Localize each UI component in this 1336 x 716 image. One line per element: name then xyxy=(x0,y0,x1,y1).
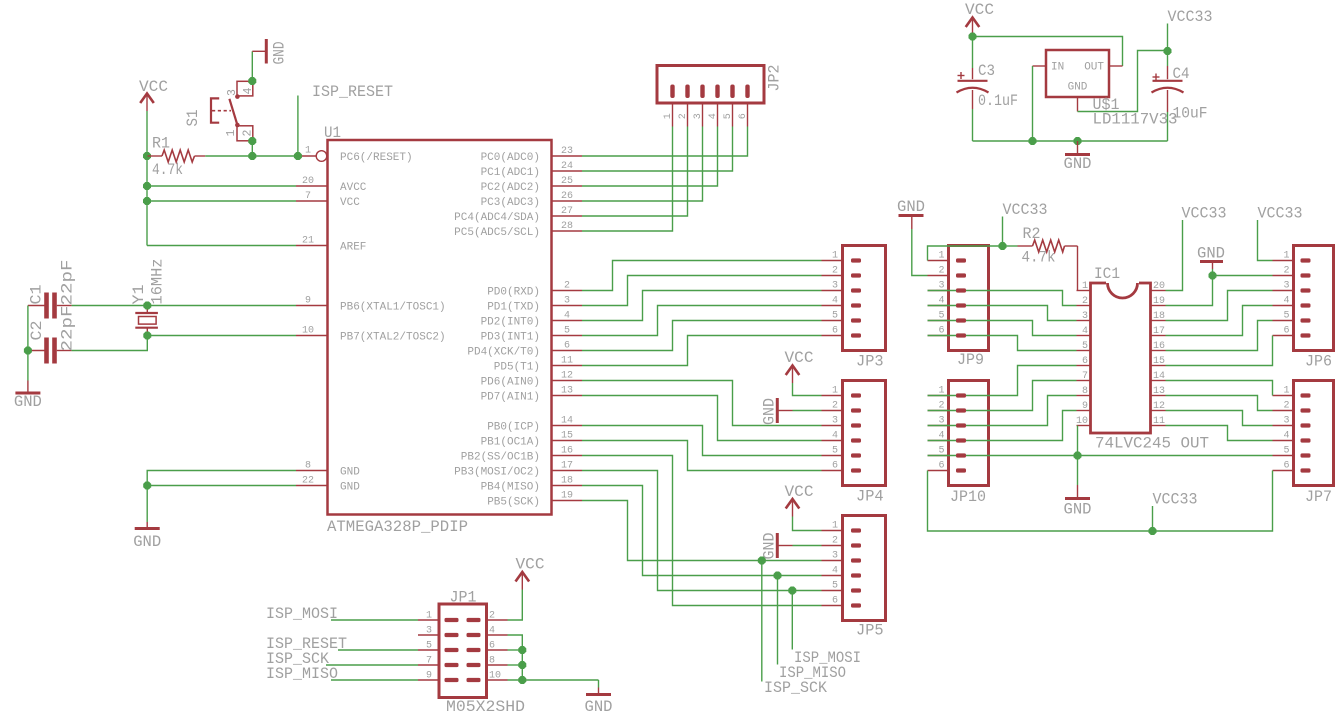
svg-text:PC1(ADC1): PC1(ADC1) xyxy=(481,167,540,179)
power symbol VCC (JP4) xyxy=(785,349,814,386)
net label VCC33 (IC1 pin20) xyxy=(1182,205,1227,223)
svg-text:15: 15 xyxy=(561,431,573,442)
JP1 pin 2 stub xyxy=(487,611,508,622)
svg-text:PD3(INT1): PD3(INT1) xyxy=(481,332,540,344)
svg-text:VCC: VCC xyxy=(965,1,994,19)
svg-text:ISP_MOSI: ISP_MOSI xyxy=(266,605,338,623)
IC1 pin 1 stub xyxy=(1077,281,1091,292)
svg-text:14: 14 xyxy=(1153,371,1165,382)
wire XTAL2 net xyxy=(147,335,296,337)
JP6 pin 2 stub xyxy=(1273,266,1294,277)
JP2 pin 2 stub and number xyxy=(678,103,689,127)
U1 pin 24 PC1(ADC1) xyxy=(481,161,582,179)
wire RESET net (R1 to U1 pin1) xyxy=(205,155,298,157)
svg-text:JP7: JP7 xyxy=(1305,488,1332,506)
wire PD4 net (U1 to JP3 pin 5) xyxy=(582,321,822,351)
svg-text:PC3(ADC3): PC3(ADC3) xyxy=(481,197,540,209)
U1 pin 9 PB6(XTAL1/TOSC1) xyxy=(296,296,446,314)
capacitor C2 22pF xyxy=(28,306,77,364)
svg-text:5: 5 xyxy=(832,311,838,322)
svg-text:VCC: VCC xyxy=(785,483,814,501)
svg-text:GND: GND xyxy=(1064,501,1092,519)
svg-text:17: 17 xyxy=(561,461,573,472)
JP1 pin 1 stub xyxy=(418,611,439,622)
svg-text:VCC33: VCC33 xyxy=(1258,205,1303,223)
IC1 pin 8 stub xyxy=(1077,386,1091,397)
wire PB1 net (U1 to JP4 pin 6) xyxy=(582,441,822,471)
node junction VCC/C3 xyxy=(969,33,977,41)
svg-text:ISP_RESET: ISP_RESET xyxy=(312,83,393,101)
wire XTAL1 net xyxy=(72,305,296,307)
svg-text:3: 3 xyxy=(832,281,838,292)
node junction rail/IN xyxy=(1029,137,1037,145)
svg-text:PD6(AIN0): PD6(AIN0) xyxy=(481,377,540,389)
JP9 pin 2 stub xyxy=(928,266,949,277)
JP3 pin 3 stub xyxy=(822,281,843,292)
wire ISP_MISO to JP1 pin9 xyxy=(331,679,418,681)
U1 pin 4 PD2(INT0) xyxy=(481,311,582,329)
connector JP2 body xyxy=(657,65,784,104)
svg-text:GND: GND xyxy=(761,398,779,425)
svg-text:PD7(AIN1): PD7(AIN1) xyxy=(481,392,540,404)
svg-text:1: 1 xyxy=(938,251,944,262)
net label ISP_MOSI (bottom) xyxy=(794,649,861,667)
JP10 pin 6 stub xyxy=(928,461,949,472)
svg-text:4.7k: 4.7k xyxy=(152,161,183,179)
wire AVCC net xyxy=(147,185,296,187)
IC1 pin 2 stub xyxy=(1077,296,1091,307)
svg-text:PC4(ADC4/SDA): PC4(ADC4/SDA) xyxy=(454,212,540,224)
JP5 pin 2 stub xyxy=(822,536,843,547)
svg-text:4: 4 xyxy=(1283,296,1289,307)
svg-text:GND: GND xyxy=(133,533,161,551)
svg-text:5: 5 xyxy=(723,113,734,119)
svg-text:GND: GND xyxy=(1197,245,1225,263)
JP1 pin 3 stub xyxy=(418,626,439,637)
connector JP5 body xyxy=(843,516,886,640)
IC1 pin 13 stub xyxy=(1151,386,1166,397)
wire PC4 net (U1 pin 27 to JP2 pin 2) xyxy=(582,127,688,217)
svg-text:1: 1 xyxy=(1082,281,1088,292)
U1 pin 21 AREF xyxy=(296,236,366,254)
IC1 pin 20 stub xyxy=(1151,281,1166,292)
wire JP9 pin 6 to IC1 pin 5 xyxy=(928,336,1077,351)
svg-text:20: 20 xyxy=(1153,281,1165,292)
svg-text:GND: GND xyxy=(1068,82,1088,94)
JP3 pin 4 stub xyxy=(822,296,843,307)
svg-text:GND: GND xyxy=(340,467,360,479)
svg-text:GND: GND xyxy=(1064,155,1092,173)
svg-text:2: 2 xyxy=(832,536,838,547)
svg-text:5: 5 xyxy=(1283,446,1289,457)
U1 pin 15 PB1(OC1A) xyxy=(481,431,582,449)
U1 pin 11 PD5(T1) xyxy=(494,356,582,374)
wire R2 to IC1 pin1 xyxy=(1077,246,1079,291)
power symbol VCC (regulator) xyxy=(965,1,994,38)
JP9 pin 4 stub xyxy=(928,296,949,307)
node junction XTAL2 xyxy=(143,332,151,340)
svg-text:ISP_MOSI: ISP_MOSI xyxy=(794,649,861,667)
svg-text:9: 9 xyxy=(1082,401,1088,412)
switch S1 pin box 1/2 xyxy=(225,126,255,141)
JP4 pin 2 stub xyxy=(822,401,843,412)
capacitor C3 0.1uF (polarized) xyxy=(957,37,1019,111)
svg-text:21: 21 xyxy=(302,236,314,247)
wire VCC to JP4 pin1 xyxy=(793,386,822,396)
svg-text:PB0(ICP): PB0(ICP) xyxy=(487,422,540,434)
power symbol VCC (left rail) xyxy=(139,78,168,114)
U1 pin 26 PC3(ADC3) xyxy=(481,191,582,209)
wire regulator ground rail xyxy=(973,140,1168,142)
ground symbol GND (U1 left) xyxy=(133,522,161,551)
wire IC1 pin19 to GND and JP6 pin2 xyxy=(1166,269,1273,306)
svg-text:74LVC245 OUT: 74LVC245 OUT xyxy=(1095,435,1209,453)
U1 pin 1 PC6(/RESET) with inversion bubble xyxy=(298,146,413,165)
svg-text:22: 22 xyxy=(302,476,314,487)
svg-text:6: 6 xyxy=(738,113,749,119)
JP9 pin 6 stub xyxy=(928,326,949,337)
svg-text:4.7k: 4.7k xyxy=(1022,249,1056,267)
svg-text:JP1: JP1 xyxy=(450,589,477,607)
svg-text:1: 1 xyxy=(832,251,838,262)
JP5 pin 3 stub xyxy=(822,551,843,562)
resistor R1 4.7k xyxy=(148,135,206,180)
wire ISP_MISO vertical xyxy=(777,576,779,665)
wire GND to JP4 pin2 xyxy=(793,410,822,412)
wire JP9 pin 5 to IC1 pin 4 xyxy=(928,321,1077,336)
svg-text:18: 18 xyxy=(561,476,573,487)
wire ISP_SCK to JP1 pin7 xyxy=(326,664,418,666)
wire PD7 net (U1 to JP4 pin 4) xyxy=(582,396,822,441)
svg-text:8: 8 xyxy=(305,461,311,472)
svg-text:4: 4 xyxy=(708,113,719,119)
svg-text:4: 4 xyxy=(1283,431,1289,442)
svg-text:4: 4 xyxy=(832,296,838,307)
JP4 pin 5 stub xyxy=(822,446,843,457)
wire C3 to ground rail xyxy=(972,109,974,141)
wire IC1 pin 12 to JP7 pin 3 xyxy=(1166,411,1273,426)
switch S1 pin box 3/4 xyxy=(226,81,255,96)
svg-text:26: 26 xyxy=(561,191,573,202)
wire AREF net xyxy=(147,245,296,247)
svg-text:11: 11 xyxy=(1153,416,1165,427)
svg-text:JP2: JP2 xyxy=(766,65,784,92)
U1 pin 7 VCC xyxy=(296,191,360,209)
svg-text:13: 13 xyxy=(1153,386,1165,397)
net label ISP_MISO (JP1) xyxy=(266,665,338,683)
wire GND to JP5 pin2 xyxy=(793,545,822,547)
node junction ISP_MISO xyxy=(774,572,782,580)
node junction S1 bottom xyxy=(248,137,256,145)
wire ISP_MOSI vertical xyxy=(791,591,793,650)
svg-text:R2: R2 xyxy=(1023,225,1041,243)
wire PD6 net (U1 to JP4 pin 3) xyxy=(582,381,822,426)
svg-text:PB4(MISO): PB4(MISO) xyxy=(481,482,540,494)
wire GND pin22 net xyxy=(147,485,296,487)
svg-text:8: 8 xyxy=(489,656,495,667)
switch S1 label xyxy=(184,110,202,127)
U1 pin 16 PB2(SS/OC1B) xyxy=(461,446,582,464)
JP6 pin 5 stub xyxy=(1273,311,1294,322)
node junction GND pin22 xyxy=(143,482,151,490)
power symbol VCC (JP1) xyxy=(516,556,545,593)
U1 pin 19 PB5(SCK) xyxy=(487,491,582,509)
svg-text:IC1: IC1 xyxy=(1094,265,1120,283)
U1 pin 27 PC4(ADC4/SDA) xyxy=(454,206,582,224)
net label ISP_RESET (top) xyxy=(312,83,393,101)
connector JP7 body xyxy=(1294,381,1334,507)
wire PB3 net (U1 to JP5 pin 5) xyxy=(582,471,822,591)
wire IC1 pin 17 to JP6 pin 4 xyxy=(1166,306,1273,336)
IC IC1 74LVC245 body xyxy=(1091,265,1210,453)
wire IC1 pin 16 to JP6 pin 5 xyxy=(1166,321,1273,351)
svg-text:4: 4 xyxy=(832,566,838,577)
wire PB2 net (U1 to JP5 pin 6) xyxy=(582,456,822,606)
JP1 pin 4 stub xyxy=(487,626,508,637)
wire PB4 net (U1 to JP5 pin 4) xyxy=(582,486,822,576)
U1 pin 18 PB4(MISO) xyxy=(481,476,582,494)
svg-text:VCC: VCC xyxy=(139,78,168,96)
IC1 pin 15 stub xyxy=(1151,356,1166,367)
net label ISP_SCK (JP1) xyxy=(266,650,329,668)
ground symbol GND (JP4, rotated) xyxy=(761,398,793,425)
svg-text:C2: C2 xyxy=(28,321,46,341)
svg-text:1: 1 xyxy=(1283,386,1289,397)
U1 pin 17 PB3(MOSI/OC2) xyxy=(454,461,582,479)
svg-text:6: 6 xyxy=(1283,461,1289,472)
JP10 pin 5 stub xyxy=(928,446,949,457)
svg-text:15: 15 xyxy=(1153,356,1165,367)
svg-text:PC5(ADC5/SCL): PC5(ADC5/SCL) xyxy=(454,227,540,239)
U$1 GND pin stub xyxy=(1077,97,1079,112)
svg-text:6: 6 xyxy=(832,596,838,607)
svg-text:5: 5 xyxy=(1082,341,1088,352)
node junction ISP_RESET/pin1 xyxy=(294,152,302,160)
svg-text:PB6(XTAL1/TOSC1): PB6(XTAL1/TOSC1) xyxy=(340,302,446,314)
JP7 pin 1 stub xyxy=(1273,386,1294,397)
JP4 pin 3 stub xyxy=(822,416,843,427)
svg-text:JP9: JP9 xyxy=(957,351,984,369)
IC U1 ATMEGA328P_PDIP body xyxy=(324,124,552,536)
svg-text:JP5: JP5 xyxy=(856,622,884,640)
svg-text:PB2(SS/OC1B): PB2(SS/OC1B) xyxy=(461,452,540,464)
svg-text:10: 10 xyxy=(1076,416,1088,427)
JP1 pin 6 stub xyxy=(487,641,508,652)
svg-text:12: 12 xyxy=(1153,401,1165,412)
svg-text:R1: R1 xyxy=(152,135,170,153)
wire PC2 net (U1 pin 25 to JP2 pin 4) xyxy=(582,127,718,187)
svg-text:6: 6 xyxy=(1082,356,1088,367)
connector JP1 body (M05X2SHD) xyxy=(439,589,525,716)
connector JP10 body xyxy=(949,381,989,507)
svg-text:2: 2 xyxy=(489,611,495,622)
svg-text:18: 18 xyxy=(1153,311,1165,322)
IC1 pin 3 stub xyxy=(1077,311,1091,322)
svg-text:7: 7 xyxy=(305,191,311,202)
svg-text:PD2(INT0): PD2(INT0) xyxy=(481,317,540,329)
node junction C2 left xyxy=(24,347,32,355)
wire VCC to JP5 pin1 xyxy=(793,519,822,531)
svg-text:GND: GND xyxy=(340,482,360,494)
net label ISP_MISO (bottom) xyxy=(779,664,846,682)
svg-text:U1: U1 xyxy=(324,124,341,142)
JP9 pin pads xyxy=(956,258,966,337)
wire PD5 net (U1 to JP3 pin 6) xyxy=(582,336,822,366)
wire IN pin to ground rail xyxy=(1032,66,1034,141)
svg-text:2: 2 xyxy=(938,266,944,277)
wire VCC33 bottom vertical xyxy=(1152,506,1154,531)
wire C2 to XTAL2 xyxy=(72,336,148,351)
svg-text:IN: IN xyxy=(1051,62,1064,74)
svg-text:10uF: 10uF xyxy=(1173,105,1208,123)
svg-text:4: 4 xyxy=(564,311,570,322)
svg-text:Y1: Y1 xyxy=(130,285,148,305)
wire JP9 pin 4 to IC1 pin 3 xyxy=(928,306,1077,321)
wire PD3 net (U1 to JP3 pin 4) xyxy=(582,306,822,336)
svg-text:16: 16 xyxy=(561,446,573,457)
wire PD2 net (U1 to JP3 pin 3) xyxy=(582,291,822,321)
node junction VCC/R1 xyxy=(143,152,151,160)
svg-text:JP10: JP10 xyxy=(950,488,986,506)
U1 pin 23 PC0(ADC0) xyxy=(481,146,582,164)
JP10 pin pads xyxy=(956,393,966,472)
wire PB0 net (U1 to JP4 pin 5) xyxy=(582,426,822,456)
connector JP4 body xyxy=(843,381,886,506)
IC1 pin 12 stub xyxy=(1151,401,1166,412)
svg-text:6: 6 xyxy=(832,461,838,472)
JP1 pin 8 stub xyxy=(487,656,508,667)
svg-text:2: 2 xyxy=(241,130,254,137)
wire PD1 net (U1 to JP3 pin 2) xyxy=(582,276,822,306)
JP7 pin 2 stub xyxy=(1273,401,1294,412)
svg-text:OUT: OUT xyxy=(1084,62,1104,74)
wire GND to JP9 pin2 xyxy=(912,229,928,276)
svg-text:5: 5 xyxy=(564,326,570,337)
connector JP9 body xyxy=(949,246,989,370)
svg-text:25: 25 xyxy=(561,176,573,187)
wire ISP_RESET vertical xyxy=(297,96,299,157)
svg-text:PD4(XCK/T0): PD4(XCK/T0) xyxy=(467,347,540,359)
svg-text:9: 9 xyxy=(305,296,311,307)
JP2 pin 6 stub and number xyxy=(738,103,749,127)
svg-text:C1: C1 xyxy=(28,285,46,305)
svg-text:6: 6 xyxy=(564,341,570,352)
svg-text:VCC33: VCC33 xyxy=(1003,201,1048,219)
net label ISP_SCK (bottom) xyxy=(764,679,827,697)
wire PC1 net (U1 pin 24 to JP2 pin 5) xyxy=(582,127,733,172)
JP4 pin 1 stub xyxy=(822,386,843,397)
svg-text:PC6(/RESET): PC6(/RESET) xyxy=(340,152,413,164)
net label VCC33 (regulator) xyxy=(1168,8,1213,26)
U1 pin 2 PD0(RXD) xyxy=(487,281,582,299)
JP2 pin 4 stub and number xyxy=(708,103,719,127)
svg-text:3: 3 xyxy=(832,551,838,562)
JP7 pin 5 stub xyxy=(1273,446,1294,457)
svg-text:1: 1 xyxy=(426,611,432,622)
wire VCC33 down to junction xyxy=(1002,217,1004,247)
svg-text:5: 5 xyxy=(832,581,838,592)
svg-text:PD1(TXD): PD1(TXD) xyxy=(487,302,540,314)
svg-text:2: 2 xyxy=(1082,296,1088,307)
JP3 pin 1 stub xyxy=(822,251,843,262)
IC1 pin 18 stub xyxy=(1151,311,1166,322)
svg-text:VCC33: VCC33 xyxy=(1182,205,1227,223)
U1 pin 3 PD1(TXD) xyxy=(487,296,582,314)
JP6 pin 3 stub xyxy=(1273,281,1294,292)
node junction AVCC xyxy=(143,182,151,190)
wire VCC pin7 net xyxy=(147,200,296,202)
JP2 pin 3 stub and number xyxy=(693,103,704,127)
JP7 pin 4 stub xyxy=(1273,431,1294,442)
svg-text:2: 2 xyxy=(564,281,570,292)
svg-text:3: 3 xyxy=(1283,281,1289,292)
svg-text:9: 9 xyxy=(426,671,432,682)
power symbol VCC (JP5) xyxy=(785,483,814,519)
svg-text:1: 1 xyxy=(225,130,238,137)
svg-text:3: 3 xyxy=(564,296,570,307)
node junction ISP_MOSI xyxy=(788,587,796,595)
svg-text:4: 4 xyxy=(1082,326,1088,337)
svg-text:6: 6 xyxy=(1283,326,1289,337)
IC1 pin 10 stub xyxy=(1076,416,1091,427)
JP5 pin 5 stub xyxy=(822,581,843,592)
svg-text:3: 3 xyxy=(832,416,838,427)
capacitor C1 22pF xyxy=(28,260,77,319)
svg-text:24: 24 xyxy=(561,161,573,172)
svg-text:LD1117V33: LD1117V33 xyxy=(1093,111,1178,129)
svg-text:17: 17 xyxy=(1153,326,1165,337)
crystal Y1 16MHz xyxy=(130,259,167,336)
wire JP10 pin5 to JP7 pin5 (GND row) xyxy=(928,455,1273,457)
wire JP10 pin 2 to IC1 pin 7 xyxy=(928,381,1077,411)
node junction IC1 GND xyxy=(1074,452,1082,460)
svg-text:20: 20 xyxy=(302,176,314,187)
wire PC0 net (U1 pin 23 to JP2 pin 6) xyxy=(582,127,748,157)
U$1 OUT pin stub xyxy=(1109,65,1123,67)
wire JP10 pin 3 to IC1 pin 8 xyxy=(928,396,1077,426)
wire S1 pin2 to RESET net xyxy=(251,141,253,156)
net label VCC33 (JP6 pin1) xyxy=(1258,205,1303,223)
node junction VCC33/C4 xyxy=(1164,47,1172,55)
svg-text:M05X2SHD: M05X2SHD xyxy=(446,698,525,716)
JP4 pin 6 stub xyxy=(822,461,843,472)
svg-text:AVCC: AVCC xyxy=(340,182,367,194)
svg-text:22pF: 22pF xyxy=(59,306,77,352)
svg-text:23: 23 xyxy=(561,146,573,157)
wire PC3 net (U1 pin 26 to JP2 pin 3) xyxy=(582,127,703,202)
JP2 pin 5 stub and number xyxy=(723,103,734,127)
IC1 pin 4 stub xyxy=(1077,326,1091,337)
svg-text:4: 4 xyxy=(242,88,255,95)
node junction JP1 pin8 xyxy=(518,661,526,669)
svg-text:C3: C3 xyxy=(978,62,995,80)
U1 pin 8 GND xyxy=(296,461,360,479)
wire IC1 pin10 to GND row xyxy=(1077,426,1079,456)
JP4 pin 4 stub xyxy=(822,431,843,442)
svg-text:5: 5 xyxy=(832,446,838,457)
wire IC1 pin 15 to JP6 pin 6 xyxy=(1166,336,1273,366)
wire S1 pin4 to GND xyxy=(251,51,253,81)
svg-text:GND: GND xyxy=(14,393,42,411)
svg-text:10: 10 xyxy=(302,326,314,337)
node junction JP1 pin6 xyxy=(518,646,526,654)
svg-text:2: 2 xyxy=(678,113,689,119)
IC1 pin 9 stub xyxy=(1077,401,1091,412)
net label ISP_RESET (JP1) xyxy=(266,635,347,653)
svg-text:JP3: JP3 xyxy=(856,353,884,371)
JP3 pin 6 stub xyxy=(822,326,843,337)
voltage regulator U$1 LD1117V33 body xyxy=(1046,50,1178,129)
